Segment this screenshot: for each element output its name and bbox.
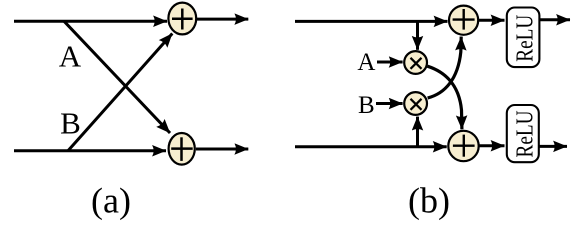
- wire: top adder to ReLU: [479, 19, 505, 22]
- svg-text:ReLU: ReLU: [511, 110, 538, 157]
- wire: bottom adder to ReLU: [479, 144, 504, 147]
- wire: top input line (a): [14, 20, 167, 23]
- svg-text:(b): (b): [408, 181, 450, 221]
- svg-text:ReLU: ReLU: [511, 14, 538, 61]
- wire: top input line (b): [295, 20, 448, 23]
- wire: bottom ReLU output: [539, 145, 567, 148]
- wire: curve from top multiplier down to bottom adder: [427, 66, 462, 129]
- adder bottom (a): [169, 133, 195, 165]
- svg-text:(a): (a): [91, 181, 131, 221]
- wire: branch up from bottom line into bottom multiplier: [416, 117, 419, 147]
- svg-text:B: B: [60, 106, 81, 141]
- adder top (a): [168, 3, 196, 35]
- ReLU box top: [507, 8, 540, 68]
- svg-text:A: A: [357, 49, 375, 76]
- wire: diagonal cross arrow from top line to bottom adder: [64, 21, 170, 133]
- wire: diagonal cross arrow from bottom line to top adder: [68, 34, 172, 151]
- adder bottom (b): [448, 131, 478, 161]
- wire: bottom input line (b): [295, 145, 447, 148]
- wire: branch down from top line into top multiplier: [416, 21, 419, 49]
- wire: B to bottom multiplier: [376, 102, 403, 105]
- multiplier bottom (b): [404, 92, 427, 115]
- adder top (b): [449, 6, 478, 35]
- ReLU box bottom: [507, 105, 539, 162]
- svg-text:A: A: [59, 39, 82, 74]
- wire: bottom input line (a): [14, 149, 166, 152]
- wire: curve from bottom multiplier up to top adder: [428, 37, 462, 98]
- wire: top output arrow (a): [197, 18, 248, 21]
- multiplier top (b): [404, 51, 427, 74]
- svg-text:B: B: [358, 92, 375, 119]
- wire: A to top multiplier: [377, 61, 403, 64]
- wire: bottom output arrow (a): [196, 148, 248, 151]
- wire: top ReLU output: [539, 18, 570, 21]
